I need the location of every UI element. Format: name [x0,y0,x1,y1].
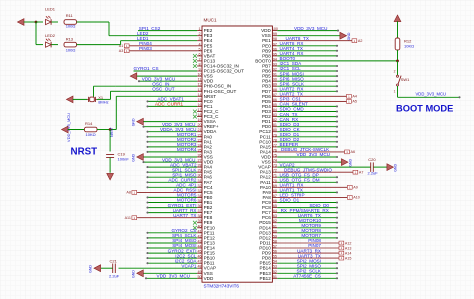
svg-text:78: 78 [273,138,277,142]
svg-text:21: 21 [197,128,201,132]
svg-text:61: 61 [273,224,277,228]
svg-text:A9: A9 [353,186,358,190]
svg-text:47: 47 [197,260,201,264]
svg-text:VCAP1: VCAP1 [181,263,197,268]
svg-text:LED1: LED1 [45,7,56,12]
svg-text:18: 18 [197,113,201,117]
svg-text:SW1: SW1 [401,77,410,82]
svg-text:VDD_3V3_MCU: VDD_3V3_MCU [157,274,190,279]
svg-text:81: 81 [273,123,277,127]
svg-text:52: 52 [273,270,277,274]
svg-text:76: 76 [273,148,277,152]
svg-text:PB12: PB12 [260,276,272,281]
svg-text:63: 63 [273,214,277,218]
svg-text:14: 14 [197,93,201,97]
svg-text:56: 56 [273,250,277,254]
svg-text:39: 39 [197,219,201,223]
svg-text:A2: A2 [358,39,363,43]
svg-text:83: 83 [273,113,277,117]
svg-text:A3: A3 [119,49,124,53]
svg-text:48: 48 [197,265,201,269]
svg-text:GND: GND [394,164,398,172]
svg-text:71: 71 [273,174,277,178]
svg-text:BOOT MODE: BOOT MODE [396,104,453,114]
svg-text:C21: C21 [110,258,118,263]
svg-text:PIN03: PIN03 [139,46,152,51]
svg-text:4: 4 [198,42,200,46]
svg-text:5: 5 [198,47,200,51]
svg-text:80: 80 [273,128,277,132]
svg-text:85: 85 [273,103,277,107]
svg-text:NRST: NRST [71,147,98,158]
svg-text:VDD: VDD [204,276,214,281]
svg-text:57: 57 [273,245,277,249]
svg-text:A14: A14 [345,251,352,255]
svg-text:92: 92 [273,68,277,72]
svg-text:A5: A5 [352,100,357,104]
svg-text:2.2uF: 2.2uF [109,274,120,279]
svg-text:17: 17 [197,108,201,112]
svg-text:10KΩ: 10KΩ [404,43,414,48]
svg-text:99: 99 [273,32,277,36]
svg-text:28: 28 [197,164,201,168]
svg-text:20: 20 [197,123,201,127]
svg-text:90: 90 [273,78,277,82]
svg-text:12: 12 [197,83,201,87]
svg-text:95: 95 [273,52,277,56]
svg-text:62: 62 [273,219,277,223]
svg-text:3: 3 [198,37,200,41]
svg-text:UART7_TX: UART7_TX [173,213,196,218]
svg-text:A12: A12 [345,241,352,245]
svg-text:31: 31 [197,179,201,183]
svg-text:89: 89 [273,83,277,87]
svg-text:38: 38 [197,214,201,218]
svg-text:A10: A10 [353,196,360,200]
svg-text:79: 79 [273,133,277,137]
svg-text:A15: A15 [345,256,352,260]
svg-text:23: 23 [197,138,201,142]
svg-text:OSC_OUT: OSC_OUT [152,87,174,92]
svg-text:82: 82 [273,118,277,122]
svg-text:41: 41 [197,229,201,233]
svg-text:44: 44 [197,245,201,249]
svg-text:26: 26 [197,154,201,158]
svg-text:VDD_3V3_MCU: VDD_3V3_MCU [416,91,447,96]
svg-text:A11: A11 [125,216,131,220]
svg-text:32: 32 [197,184,201,188]
svg-text:GND: GND [132,270,136,278]
svg-text:25: 25 [197,148,201,152]
svg-text:ADC_CURR1: ADC_CURR1 [155,102,184,107]
svg-text:91: 91 [273,73,277,77]
svg-text:A7: A7 [359,171,364,175]
svg-text:R11: R11 [66,13,74,18]
svg-text:15: 15 [197,98,201,102]
svg-text:72: 72 [273,169,277,173]
svg-text:A4: A4 [352,95,357,99]
svg-text:6: 6 [198,52,200,56]
svg-text:A6: A6 [351,150,356,154]
svg-text:19: 19 [197,118,201,122]
svg-text:40: 40 [197,224,201,228]
svg-text:AT7456E_CS: AT7456E_CS [293,274,321,279]
svg-text:10: 10 [197,73,201,77]
svg-text:37: 37 [197,209,201,213]
svg-text:34: 34 [197,194,201,198]
svg-text:87: 87 [273,93,277,97]
svg-text:27: 27 [197,159,201,163]
svg-text:59: 59 [273,234,277,238]
svg-text:7: 7 [198,57,200,61]
svg-text:GND: GND [89,265,93,273]
svg-text:VDD_3V3_MCU: VDD_3V3_MCU [294,26,327,31]
svg-text:R13: R13 [66,36,74,41]
svg-text:GND: GND [132,153,136,161]
svg-text:29: 29 [197,169,201,173]
svg-text:11: 11 [198,78,202,82]
svg-text:70: 70 [273,179,277,183]
svg-text:GND: GND [347,32,351,40]
svg-text:64: 64 [273,209,277,213]
svg-text:98: 98 [273,37,277,41]
svg-text:54: 54 [273,260,277,264]
svg-text:1: 1 [198,27,200,31]
svg-text:VDD_3V3_MCU: VDD_3V3_MCU [297,152,330,157]
svg-text:49: 49 [197,270,201,274]
svg-text:84: 84 [273,108,277,112]
svg-text:A8: A8 [126,191,131,195]
svg-text:30: 30 [197,174,201,178]
svg-text:35: 35 [197,199,201,203]
svg-text:VDD_3V3_MCU: VDD_3V3_MCU [66,113,71,142]
svg-text:60: 60 [273,229,277,233]
svg-text:77: 77 [273,143,277,147]
svg-text:MOTOR4: MOTOR4 [177,147,197,152]
svg-text:100: 100 [272,27,278,31]
svg-text:R14: R14 [85,121,93,126]
svg-text:67: 67 [273,194,277,198]
svg-text:16: 16 [197,103,201,107]
svg-text:75: 75 [273,154,277,158]
svg-text:65: 65 [273,204,277,208]
svg-text:50: 50 [197,275,201,279]
svg-text:46: 46 [197,255,201,259]
svg-text:96: 96 [273,47,277,51]
svg-text:33: 33 [197,189,201,193]
svg-text:10KΩ: 10KΩ [86,132,96,137]
svg-text:MUC1: MUC1 [204,18,217,23]
svg-text:24: 24 [197,143,201,147]
svg-text:13: 13 [197,88,201,92]
svg-text:42: 42 [197,234,201,238]
svg-text:66: 66 [273,199,277,203]
svg-text:100Ω: 100Ω [66,24,76,29]
svg-text:1: 1 [394,90,396,94]
svg-text:73: 73 [273,164,277,168]
svg-text:53: 53 [273,265,277,269]
svg-text:74: 74 [273,159,277,163]
svg-text:LED2: LED2 [45,33,56,38]
svg-text:43: 43 [197,240,201,244]
svg-text:58: 58 [273,240,277,244]
svg-text:STM32H743VIT6: STM32H743VIT6 [204,283,240,288]
svg-text:GND: GND [132,118,136,126]
svg-text:93: 93 [273,63,277,67]
svg-text:2: 2 [394,70,396,74]
svg-text:8MHz: 8MHz [98,100,108,105]
svg-text:100Ω: 100Ω [66,48,76,53]
svg-text:8: 8 [198,63,200,67]
svg-text:GND: GND [349,159,353,167]
svg-text:36: 36 [197,204,201,208]
svg-text:100nF: 100nF [118,157,130,162]
svg-text:88: 88 [273,88,277,92]
svg-text:45: 45 [197,250,201,254]
svg-text:A13: A13 [345,246,352,250]
svg-text:51: 51 [273,275,277,279]
svg-text:55: 55 [273,255,277,259]
svg-text:86: 86 [273,98,277,102]
svg-text:94: 94 [273,57,277,61]
svg-text:22: 22 [197,133,201,137]
svg-text:68: 68 [273,189,277,193]
svg-text:97: 97 [273,42,277,46]
svg-text:GYRO1_CS: GYRO1_CS [134,66,159,71]
svg-text:C20: C20 [368,157,376,162]
svg-text:SDIO_D1: SDIO_D1 [280,198,300,203]
svg-text:2.2uF: 2.2uF [368,171,379,176]
svg-text:2: 2 [198,32,200,36]
svg-text:69: 69 [273,184,277,188]
svg-text:9: 9 [198,68,200,72]
